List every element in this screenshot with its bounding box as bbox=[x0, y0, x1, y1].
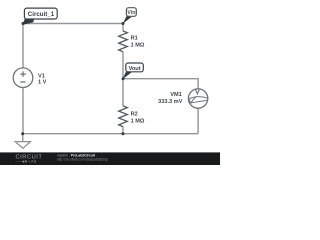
svg-text:Vout: Vout bbox=[129, 66, 141, 72]
svg-text:──◀■ LAB: ──◀■ LAB bbox=[15, 160, 37, 164]
svg-text:Vin: Vin bbox=[127, 10, 135, 16]
svg-text:R1: R1 bbox=[131, 36, 138, 42]
svg-text:R2: R2 bbox=[131, 112, 138, 118]
svg-text:1 MΩ: 1 MΩ bbox=[131, 118, 145, 124]
svg-text:http://circuitlab.com/c8a3qa5q: http://circuitlab.com/c8a3qa5q852qp bbox=[57, 157, 108, 161]
svg-text:1 MΩ: 1 MΩ bbox=[131, 42, 145, 48]
svg-text:VM1: VM1 bbox=[170, 92, 182, 98]
svg-text:Circuit_1: Circuit_1 bbox=[28, 11, 55, 18]
svg-text:1 V: 1 V bbox=[38, 79, 47, 85]
svg-text:333.3 mV: 333.3 mV bbox=[158, 99, 183, 105]
